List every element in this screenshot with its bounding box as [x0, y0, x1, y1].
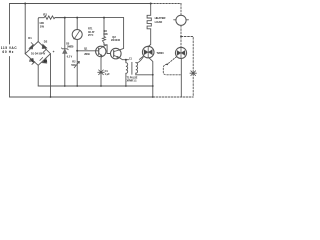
wire AC drop to bridge — [24, 4, 26, 54]
svg-text:D1: D1 — [28, 36, 32, 40]
wire lamp bottom dashed — [180, 25, 182, 36]
wire R3 to Q2 base — [104, 45, 111, 54]
svg-text:50K: 50K — [71, 64, 76, 67]
resistor R1 — [39, 16, 65, 19]
thermistor RT1 — [72, 30, 82, 40]
svg-text:D5: D5 — [66, 42, 70, 45]
wire bridge bottom to DC- bus — [37, 65, 39, 86]
wire Q1 collector — [99, 45, 107, 50]
wire triac T1 bottom — [149, 58, 153, 97]
wire Q1 emitter w/ arrow — [99, 53, 102, 56]
wire Q2 emitter w/ arrow — [114, 55, 120, 57]
svg-text:1N4735: 1N4735 — [67, 45, 74, 48]
bridge rectifier D1-D4 diamond — [25, 42, 50, 66]
diode D4 — [42, 59, 47, 64]
asterisk footnote right branch — [190, 71, 197, 76]
wire Q2 emitter to T1 primary — [119, 58, 128, 60]
svg-text:LOAD: LOAD — [155, 20, 163, 24]
wire T1 secondary top to triac gate — [136, 57, 144, 63]
asterisk footnote on Q1 emitter — [98, 70, 105, 75]
svg-text:10K: 10K — [103, 33, 108, 36]
svg-text:D3: D3 — [29, 59, 33, 63]
wire T1 primary bottom to DC- — [125, 74, 127, 86]
pot R2 wiper arrow — [74, 61, 79, 67]
wire bottom dashed bus — [153, 96, 193, 98]
heater load element — [147, 4, 151, 29]
lamp side rays — [174, 19, 189, 21]
svg-text:D4: D4 — [44, 59, 48, 63]
wire dashed node down to triac T2 — [180, 37, 182, 48]
transistor Q1 — [96, 46, 106, 56]
resistor R3 branch — [103, 18, 105, 45]
svg-text:R1: R1 — [43, 13, 47, 17]
transformer T1 secondary coil — [136, 63, 138, 74]
svg-text:6.2 V: 6.2 V — [67, 57, 73, 59]
triac T2 — [175, 47, 186, 58]
svg-text:D2: D2 — [44, 39, 48, 43]
wire rail corner down to Q2 collector — [120, 18, 124, 50]
wire heater to triac T1 — [148, 29, 151, 47]
wire left AC upper — [9, 4, 11, 45]
svg-text:60 Hz: 60 Hz — [2, 50, 13, 54]
transistor Q2 — [111, 48, 122, 59]
svg-text:25°C: 25°C — [88, 34, 94, 37]
resistor R3 zigzag — [102, 36, 105, 43]
wire RT1 to pot — [76, 40, 78, 86]
svg-text:T2800: T2800 — [157, 52, 165, 55]
svg-text:+: + — [53, 50, 55, 54]
svg-text:1 µF: 1 µF — [105, 73, 111, 76]
svg-text:R2: R2 — [72, 60, 76, 63]
svg-text:2N4036: 2N4036 — [111, 39, 121, 42]
svg-text:C1: C1 — [129, 59, 133, 61]
svg-text:HEATER: HEATER — [155, 16, 166, 20]
wire Q2 collector — [114, 50, 120, 52]
wire T1 secondary bottom return — [136, 73, 153, 75]
wire dashed node to right branch — [181, 37, 193, 98]
wire triac T2 gate dashed — [167, 57, 176, 65]
svg-text:Q1: Q1 — [84, 48, 88, 51]
zener D5 — [63, 49, 68, 53]
wire top bus solid — [10, 3, 151, 5]
wire Q1 base — [77, 50, 99, 52]
triac T1 — [142, 46, 154, 58]
wire bridge right vertex down to AC bus — [50, 54, 52, 97]
diode D1 — [29, 44, 33, 49]
svg-text:2N39: 2N39 — [84, 54, 90, 56]
wire left AC lower — [9, 57, 11, 98]
transformer T1 primary coil — [126, 60, 128, 74]
diode D3 — [30, 58, 34, 63]
wire +DC rail — [55, 17, 124, 19]
lamp load (dashed feed) — [180, 4, 182, 16]
thermistor RT1 branch upper wire — [76, 18, 78, 30]
wire triac T2 bottom — [180, 59, 182, 98]
wire bridge top to R1 — [37, 18, 40, 42]
junction dots — [24, 3, 26, 5]
wire DC- bus — [38, 85, 153, 87]
wire bottom AC bus — [10, 96, 154, 98]
wire triac T1 gate from T1 secondary — [139, 56, 143, 59]
svg-text:XFMR 1:1: XFMR 1:1 — [127, 79, 138, 82]
diode D2 — [42, 44, 47, 49]
svg-text:1W: 1W — [40, 24, 45, 28]
zener D5 branch wire — [64, 18, 66, 86]
svg-text:D1-D4 50PIV: D1-D4 50PIV — [31, 53, 46, 56]
wire Q1 emitter down — [100, 56, 103, 86]
transformer T1 core — [131, 62, 133, 74]
wire top bus dashed to load — [151, 3, 181, 5]
